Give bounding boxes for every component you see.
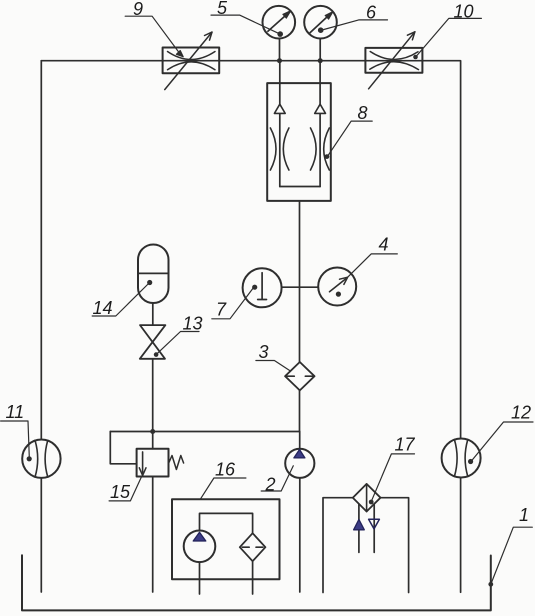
pressure gauge 4: [318, 268, 356, 306]
wire gauge 5 drop: [279, 39, 281, 61]
thermometer 7: [243, 268, 282, 307]
shut-off valve 13: [140, 325, 166, 359]
svg-text:16: 16: [215, 460, 236, 480]
svg-text:9: 9: [133, 0, 143, 19]
leader label 17: [372, 454, 415, 500]
wire pump 2 to tank: [299, 478, 301, 592]
wire filter16 suction: [252, 561, 254, 594]
node junction right gauge: [318, 58, 323, 63]
leader label 1: [488, 527, 532, 586]
pressure gauge 6: [304, 6, 337, 39]
svg-text:5: 5: [217, 0, 228, 18]
check valve up (filled): [354, 519, 365, 529]
wire top horizontal: [41, 60, 460, 62]
svg-text:2: 2: [265, 475, 276, 495]
svg-text:17: 17: [395, 434, 416, 454]
breather unit walls: [323, 498, 409, 593]
svg-text:11: 11: [6, 402, 25, 422]
svg-text:3: 3: [259, 342, 269, 362]
leader label 4: [348, 254, 397, 277]
pump 2: [285, 449, 314, 478]
leader label 15: [109, 477, 141, 501]
svg-text:10: 10: [454, 1, 474, 21]
wire left limb: [279, 61, 281, 187]
svg-text:15: 15: [110, 482, 131, 502]
check valve lines under 17: [358, 505, 360, 553]
check valve down (hollow): [369, 519, 380, 529]
power unit box 16: [172, 499, 280, 579]
arrowhead right limb: [315, 104, 326, 113]
leader label 16: [201, 478, 246, 499]
throttle valve 10: [365, 32, 422, 89]
breather filter 17: [353, 484, 381, 512]
svg-text:13: 13: [183, 314, 203, 334]
leader label 6: [322, 20, 388, 30]
svg-text:4: 4: [379, 234, 389, 254]
leader label 5: [211, 15, 279, 33]
wire pump16 to filter16: [200, 513, 253, 533]
wire valve 15 to tank: [152, 477, 154, 593]
filter 3: [285, 362, 314, 390]
wire right vertical lower: [460, 478, 462, 593]
wire left vertical upper: [40, 61, 42, 440]
venturi arcs right pair: [311, 128, 317, 170]
venturi arcs left pair: [270, 128, 276, 170]
node junction left gauge: [277, 58, 282, 63]
node junction bypass: [150, 429, 155, 434]
wire valve 13 down: [152, 359, 154, 449]
wire center outlet of 8: [299, 201, 301, 362]
filter of unit 16: [240, 533, 266, 561]
flow meter 11: [22, 440, 60, 478]
leader label 8: [328, 121, 372, 156]
wire U bottom: [280, 186, 320, 188]
leader label 2: [261, 466, 293, 491]
svg-text:8: 8: [358, 103, 368, 123]
svg-text:7: 7: [216, 299, 227, 319]
svg-text:12: 12: [511, 402, 531, 422]
throttle valve 9: [163, 32, 220, 90]
wire left vertical lower: [40, 478, 42, 592]
wire bypass horizontal: [110, 431, 299, 433]
leader label 14: [92, 284, 148, 317]
wire right limb: [319, 61, 321, 187]
leader label 10: [417, 18, 482, 56]
wire between 7 and 4: [282, 286, 319, 288]
leader label 13: [157, 332, 199, 354]
svg-text:1: 1: [519, 505, 529, 525]
wire accumulator to valve 13: [152, 303, 154, 325]
leader label 3: [256, 361, 291, 372]
tank 1: [22, 555, 491, 610]
accumulator 14: [138, 244, 169, 303]
leader label 12: [472, 422, 533, 461]
wire junction to pump 2: [299, 432, 301, 449]
pump of unit 16: [184, 531, 216, 563]
leader label 9: [125, 16, 183, 57]
arrowhead left limb: [274, 104, 285, 113]
flow indicator unit 8: [267, 61, 331, 201]
wire pilot loop: [110, 432, 136, 464]
wire gauge 6 drop: [319, 39, 321, 61]
pressure gauge 5: [263, 6, 296, 39]
wire pump16 suction: [199, 562, 201, 594]
spring of valve 15: [169, 456, 184, 470]
flow meter 12: [442, 439, 481, 478]
leader label 11: [1, 421, 30, 458]
relief valve 15: [137, 449, 184, 477]
wire right vertical upper: [460, 61, 462, 439]
svg-text:14: 14: [93, 298, 113, 318]
leader label 7: [212, 288, 253, 319]
svg-text:6: 6: [366, 3, 377, 23]
wire filter 3 to junction: [299, 391, 301, 432]
